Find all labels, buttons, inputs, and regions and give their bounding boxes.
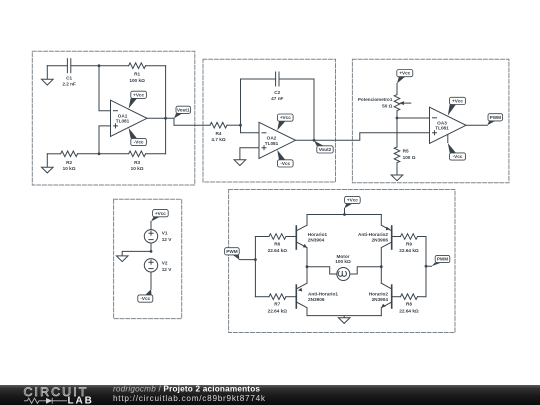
schematic text labels	[62, 72, 449, 314]
resistor R3 10k	[99, 151, 166, 157]
svg-text:Vout2: Vout2	[319, 147, 332, 152]
transistor Horario2 2N3904 (NPN bottom-right)	[381, 267, 392, 316]
op-amp OA3 TL081	[430, 107, 467, 143]
svg-text:-Vcc: -Vcc	[140, 296, 150, 301]
ground (H-bridge)	[338, 318, 350, 324]
svg-text:R1: R1	[134, 72, 140, 77]
wire C1 to node A	[71, 65, 99, 67]
ground (box1 bottom, R2)	[42, 154, 54, 173]
svg-text:-Vcc: -Vcc	[134, 140, 144, 145]
voltage source V1 12V	[144, 230, 157, 243]
svg-text:Vout1: Vout1	[177, 108, 190, 113]
svg-text:2N3906: 2N3906	[308, 297, 325, 302]
node F junction	[150, 250, 153, 253]
svg-text:100 kΩ: 100 kΩ	[129, 78, 145, 83]
flag -Vcc (OA1)	[129, 128, 147, 146]
svg-text:2N3904: 2N3904	[372, 297, 389, 302]
node A junction	[98, 64, 101, 67]
svg-text:100 kΩ: 100 kΩ	[335, 259, 351, 264]
svg-text:OA1: OA1	[118, 113, 128, 118]
svg-text:TL081: TL081	[435, 126, 449, 131]
wire bottom rail	[307, 316, 381, 318]
node G junction (top rail tap)	[343, 213, 346, 216]
op-amp OA2 TL081	[259, 122, 296, 158]
motor Motor 100k	[337, 268, 350, 281]
flag Vout1	[174, 106, 191, 118]
flag +Vcc (OA3)	[448, 97, 466, 115]
logo schematic squiggle with diode	[24, 398, 67, 404]
svg-text:2N3906: 2N3906	[372, 238, 389, 243]
wire +Vcc to top rail (H-bridge)	[344, 208, 346, 214]
svg-text:C2: C2	[274, 90, 280, 95]
wire OA3 output	[466, 124, 487, 126]
svg-text:+Vcc: +Vcc	[452, 99, 463, 104]
flag -Vcc (OA3)	[448, 134, 466, 160]
resistor R9 22.64k	[392, 234, 426, 240]
svg-text:Horario2: Horario2	[369, 291, 389, 296]
svg-text:http://circuitlab.com/c89br9kt: http://circuitlab.com/c89br9kt8774k	[113, 394, 266, 403]
svg-text:Horario1: Horario1	[308, 232, 328, 237]
transistor Horario1 2N3904 (NPN top-left)	[296, 215, 307, 267]
potentiometer Potenciometro1 50 ohm	[394, 84, 411, 119]
wire OA1 output	[147, 118, 210, 125]
ground (supplies midpoint)	[116, 256, 128, 262]
svg-text:C1: C1	[66, 76, 72, 81]
svg-text:4.7 kΩ: 4.7 kΩ	[211, 137, 225, 142]
flag PWM (OA3 output)	[487, 114, 502, 126]
flag +Vcc (H-bridge)	[345, 196, 361, 208]
svg-text:TL081: TL081	[265, 141, 279, 146]
svg-text:47 nF: 47 nF	[271, 96, 283, 101]
wire OA3 inverting input	[397, 117, 430, 119]
svg-text:-Vcc: -Vcc	[453, 154, 463, 159]
capacitor C1 2.2nF	[67, 59, 70, 73]
svg-text:50 Ω: 50 Ω	[382, 103, 393, 108]
capacitor C2 47nF	[276, 72, 279, 86]
node C junction (OA2 inverting)	[239, 124, 242, 127]
wire inverting input OA1	[99, 66, 111, 111]
flag -Vcc (OA2)	[277, 150, 293, 167]
ground (R5)	[391, 175, 403, 181]
wire feedback vertical R1/R3	[165, 66, 167, 154]
dashed enclosure box 1 (top-left)	[32, 51, 195, 185]
svg-text:2.2 nF: 2.2 nF	[62, 81, 76, 86]
svg-text:V1: V1	[162, 231, 168, 236]
flag Vout2	[314, 141, 333, 153]
svg-text:12 V: 12 V	[162, 237, 173, 242]
svg-text:22.64 kΩ: 22.64 kΩ	[399, 309, 419, 314]
dashed enclosure box 2 (top-middle)	[203, 59, 336, 182]
svg-text:R8: R8	[406, 302, 412, 307]
flag PWM (H-bridge left)	[225, 248, 240, 260]
node B junction	[98, 152, 101, 155]
svg-text:R4: R4	[216, 131, 222, 136]
svg-text:PWM: PWM	[437, 257, 448, 262]
wire ground to C1	[47, 65, 67, 67]
svg-text:22.64 kΩ: 22.64 kΩ	[399, 248, 419, 253]
svg-text:+Vcc: +Vcc	[347, 198, 358, 203]
transistor Anti-Horario1 2N3906 (PNP bottom-left)	[296, 267, 307, 316]
ground (OA2 noninverting)	[234, 160, 246, 166]
svg-text:R9: R9	[406, 241, 412, 246]
svg-text:2N3904: 2N3904	[308, 238, 325, 243]
wire OA2 output to box3	[296, 133, 430, 141]
wire left PWM vertical	[239, 237, 255, 297]
svg-text:OA2: OA2	[267, 135, 277, 140]
svg-text:+Vcc: +Vcc	[399, 71, 410, 76]
svg-text:-Vcc: -Vcc	[280, 161, 290, 166]
wire right PWM vertical	[426, 237, 432, 297]
svg-text:R3: R3	[134, 160, 140, 165]
resistor R4 4.7k	[210, 122, 241, 128]
dashed enclosure box 5 (bottom-right H-bridge)	[229, 190, 455, 333]
wire feedback loop C2	[241, 79, 315, 140]
node K junction (motor right)	[380, 265, 383, 268]
dashed enclosure box 4 (bottom-left supplies)	[114, 199, 182, 318]
svg-text:+Vcc: +Vcc	[280, 115, 291, 120]
svg-text:TL081: TL081	[116, 119, 130, 124]
op-amp OA1 TL081	[111, 100, 148, 136]
flag PWM (H-bridge right)	[432, 255, 450, 266]
svg-text:PWM: PWM	[226, 249, 237, 254]
wire +Vcc to V1	[150, 222, 152, 230]
dashed enclosure box 3 (top-right)	[352, 59, 509, 182]
svg-text:22.64 kΩ: 22.64 kΩ	[268, 248, 288, 253]
svg-text:V2: V2	[162, 261, 168, 266]
svg-text:R5: R5	[403, 149, 409, 154]
resistor R2 10k	[47, 151, 99, 157]
svg-text:22.64 kΩ: 22.64 kΩ	[268, 309, 288, 314]
svg-text:rodrigocmb / Projeto 2 acionam: rodrigocmb / Projeto 2 acionamentos	[113, 384, 260, 393]
wire OA2 inverting input	[241, 125, 260, 133]
wire OA2 noninverting input	[240, 148, 259, 160]
svg-text:+Vcc: +Vcc	[155, 211, 166, 216]
wire node F to ground	[122, 251, 151, 256]
node E junction (divider)	[396, 117, 399, 120]
wire V2 to -Vcc flag	[150, 272, 152, 289]
svg-text:+Vcc: +Vcc	[133, 92, 144, 97]
wire noninverting input OA1	[99, 126, 111, 154]
svg-text:OA3: OA3	[437, 120, 447, 125]
wire V1 to node F	[150, 243, 152, 251]
wire top rail	[307, 214, 381, 216]
flag -Vcc (V2)	[138, 289, 153, 302]
node H junction (left PWM)	[254, 258, 257, 261]
svg-text:Anti-Horario2: Anti-Horario2	[358, 232, 388, 237]
svg-text:Potenciometro1: Potenciometro1	[358, 97, 393, 102]
node I junction (right PWM)	[425, 265, 428, 268]
node D junction (OA2 output)	[313, 139, 316, 142]
wire motor rail	[307, 267, 381, 274]
node J junction (motor left)	[306, 265, 309, 268]
flag +Vcc (OA1)	[129, 91, 147, 108]
svg-text:10 kΩ: 10 kΩ	[131, 166, 144, 171]
svg-text:R6: R6	[274, 241, 280, 246]
ground (box1 top, C1 input)	[42, 66, 54, 85]
resistor R7 22.64k	[255, 294, 296, 300]
transistor Anti-Horario2 2N3906 (PNP top-right)	[381, 215, 391, 267]
svg-text:R2: R2	[66, 160, 72, 165]
flag +Vcc (OA2)	[277, 114, 293, 131]
svg-text:PWM: PWM	[490, 115, 501, 120]
node OA1 output junction	[164, 117, 167, 120]
svg-text:LAB: LAB	[68, 396, 94, 405]
svg-text:10 kΩ: 10 kΩ	[63, 166, 76, 171]
svg-text:Anti-Horario1: Anti-Horario1	[308, 291, 338, 296]
resistor R5 100 ohm	[394, 118, 400, 175]
resistor R8 22.64k	[392, 294, 426, 300]
flag +Vcc (potentiometer)	[397, 70, 413, 84]
svg-text:12 V: 12 V	[162, 267, 173, 272]
flag +Vcc (V1)	[151, 210, 168, 222]
resistor R1 100k	[99, 63, 166, 69]
resistor R6 22.64k	[255, 234, 296, 240]
voltage source V2 12V	[144, 259, 157, 272]
svg-text:R7: R7	[274, 302, 280, 307]
svg-text:100 Ω: 100 Ω	[403, 155, 416, 160]
